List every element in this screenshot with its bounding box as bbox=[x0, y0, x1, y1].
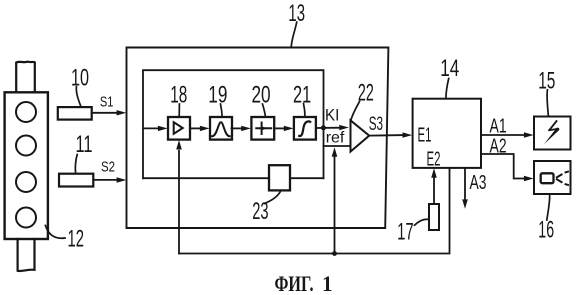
svg-text:14: 14 bbox=[440, 55, 459, 82]
svg-text:E1: E1 bbox=[418, 125, 432, 147]
inner box bbox=[143, 70, 324, 178]
leader line 12 bbox=[45, 225, 65, 238]
leader line 19 bbox=[221, 104, 223, 117]
wire 18-19 bbox=[190, 127, 202, 129]
svg-text:ФИГ.: ФИГ. bbox=[275, 271, 314, 295]
block 17 bbox=[429, 204, 439, 230]
svg-text:S1: S1 bbox=[100, 94, 114, 111]
svg-text:18: 18 bbox=[170, 81, 187, 108]
svg-text:E2: E2 bbox=[427, 149, 441, 171]
leader line 11 bbox=[75, 155, 77, 174]
svg-text:20: 20 bbox=[252, 81, 271, 108]
svg-text:15: 15 bbox=[538, 68, 555, 95]
svg-text:A1: A1 bbox=[490, 115, 507, 137]
block 18 (amplifier) bbox=[168, 117, 190, 140]
svg-text:17: 17 bbox=[397, 219, 414, 246]
wire KI (21 to comparator) bbox=[316, 127, 341, 129]
svg-text:16: 16 bbox=[538, 217, 554, 244]
cylinder circle 3 bbox=[16, 172, 36, 192]
wire A2 bbox=[481, 154, 525, 179]
comparator 22 bbox=[351, 120, 370, 151]
leader line 22 bbox=[351, 102, 360, 121]
leader line 21 bbox=[304, 104, 306, 117]
feedback riser to block 18 bbox=[178, 151, 180, 254]
leader line 10 bbox=[76, 87, 81, 107]
leader line 16 bbox=[547, 195, 550, 220]
spark box 15 bbox=[534, 117, 571, 150]
leader line 13 bbox=[291, 22, 297, 47]
wire into block 18 bbox=[143, 127, 159, 129]
junction node KI / inner box edge bbox=[321, 125, 326, 130]
svg-text:13: 13 bbox=[288, 0, 305, 27]
svg-text:A2: A2 bbox=[490, 135, 507, 157]
cylinder circle 2 bbox=[16, 136, 36, 156]
svg-text:21: 21 bbox=[293, 81, 311, 108]
svg-text:ref: ref bbox=[326, 129, 345, 146]
wire 19-20 bbox=[232, 127, 243, 129]
svg-text:KI: KI bbox=[325, 106, 339, 124]
control unit box 13 bbox=[127, 48, 389, 229]
engine bottom shaft bbox=[18, 239, 35, 271]
block 21 (integrator) bbox=[294, 117, 316, 140]
leader line 18 bbox=[178, 104, 180, 117]
inner box bottom edge wire (through block 23) bbox=[143, 177, 324, 179]
svg-text:12: 12 bbox=[68, 225, 85, 252]
engine block 12 bbox=[5, 92, 48, 239]
leader line 23 bbox=[265, 191, 281, 204]
leader line 14 bbox=[446, 79, 449, 99]
block 19 (filter) bbox=[210, 117, 232, 140]
wire S2 bbox=[93, 179, 117, 181]
leader line 20 bbox=[263, 104, 266, 117]
wire ref stub bbox=[324, 145, 351, 147]
svg-text:S3: S3 bbox=[369, 114, 383, 135]
leader line 17 bbox=[415, 219, 430, 225]
svg-text:A3: A3 bbox=[470, 172, 487, 194]
junction node bbox=[332, 251, 337, 256]
sensor 11 bbox=[59, 174, 93, 187]
svg-text:22: 22 bbox=[358, 80, 374, 107]
wire A1 bbox=[481, 134, 525, 136]
injector box 16 bbox=[534, 161, 571, 194]
svg-text:23: 23 bbox=[252, 198, 268, 225]
cylinder circle 1 bbox=[16, 102, 36, 122]
block 23 bbox=[269, 165, 290, 190]
svg-text:10: 10 bbox=[71, 65, 89, 92]
wire A3 bbox=[464, 168, 466, 201]
cylinder circle 4 bbox=[16, 208, 36, 228]
sensor 10 bbox=[58, 107, 92, 120]
wire 20-21 bbox=[274, 127, 285, 129]
feedback riser to ref input bbox=[334, 156, 336, 254]
feedback wire from box 14 bottom bbox=[179, 168, 450, 254]
svg-text:1: 1 bbox=[322, 271, 333, 295]
wire S3 bbox=[369, 134, 403, 137]
svg-text:19: 19 bbox=[208, 81, 227, 108]
wire 17 to box 14 bbox=[433, 173, 435, 204]
svg-text:S2: S2 bbox=[101, 159, 115, 176]
svg-text:11: 11 bbox=[76, 131, 93, 158]
wire S1 bbox=[92, 112, 118, 114]
controller box 14 bbox=[413, 99, 481, 168]
lightning bolt bbox=[549, 121, 558, 130]
injector symbol bbox=[541, 173, 554, 183]
block 20 (summer) bbox=[251, 117, 274, 140]
leader line 15 bbox=[547, 90, 548, 116]
engine top shaft bbox=[16, 62, 35, 93]
